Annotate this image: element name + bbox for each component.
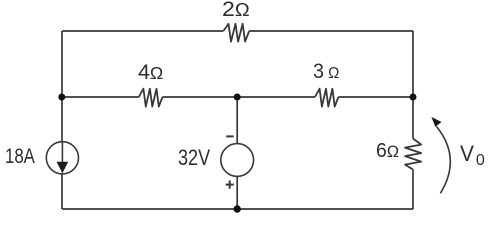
wire right vertical upper (top corner down to node C and 6ohm)	[412, 31, 414, 139]
current source I1 arrow shaft	[61, 142, 63, 165]
value label 6 ohm for R4	[376, 141, 399, 161]
current source I1 arrowhead (down)	[57, 162, 69, 174]
wire below voltage source to bottom node	[236, 176, 238, 209]
value label 2 ohm for R1	[222, 0, 250, 20]
wire right vertical lower	[412, 170, 414, 210]
polarity plus sign of V1	[226, 184, 234, 186]
resistor R2 4 ohm (middle-left)	[139, 89, 163, 107]
resistor R1 2 ohm (top)	[223, 24, 249, 42]
wire middle: 4ohm to node B to 3ohm	[163, 96, 316, 98]
resistor R4 6 ohm (right, vertical)	[405, 139, 421, 170]
wire left vertical (node A down to current source)	[61, 97, 63, 142]
node A junction dot	[58, 94, 65, 101]
label Vo (output voltage)	[460, 143, 474, 166]
current source I1 18A (circle)	[46, 142, 78, 174]
wire: node B down to voltage source	[236, 97, 238, 144]
Vo curved arrow head	[431, 117, 441, 127]
bottom node junction dot	[234, 205, 241, 212]
wire middle: 3ohm to node C	[338, 96, 413, 98]
value label 18A for current source I1	[5, 146, 35, 167]
Vo reference curved arrow	[437, 127, 451, 194]
value label 4 ohm for R2	[138, 62, 163, 83]
node B junction dot	[234, 94, 241, 101]
value label 3 ohm for R3	[313, 61, 339, 82]
polarity minus sign of V1	[226, 135, 233, 137]
value label 32V for voltage source V1	[178, 147, 210, 169]
wire bottom horizontal	[62, 208, 413, 210]
wire top-left horizontal segment	[62, 30, 223, 32]
voltage source V1 32V (circle)	[221, 144, 254, 177]
wire below current source	[61, 174, 63, 209]
wire middle: node A to 4ohm	[62, 96, 139, 98]
node C junction dot	[410, 94, 417, 101]
label Vo subscript	[476, 153, 485, 169]
resistor R3 3 ohm (middle-right)	[315, 89, 338, 107]
wire top-right horizontal segment	[249, 30, 413, 32]
wire left vertical upper (top corner to node A)	[61, 31, 63, 97]
